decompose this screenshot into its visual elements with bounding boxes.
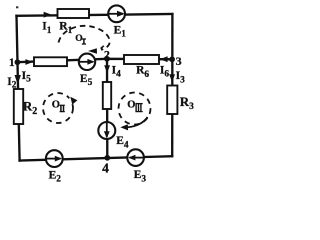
loop O_III dashed circle <box>119 93 151 125</box>
E2 arrow line <box>46 158 60 160</box>
resistor R5 (unlabeled, middle branch) <box>34 57 67 66</box>
E5 arrowhead <box>87 59 94 65</box>
svg-text:O: O <box>127 99 135 110</box>
resistor R4 (unlabeled, middle vertical) <box>103 82 111 109</box>
current arrow I6 <box>160 56 168 62</box>
scan noise dot <box>16 6 18 8</box>
source E3 <box>127 149 144 166</box>
E3 arrow line <box>130 157 144 159</box>
source E1 <box>108 5 125 22</box>
svg-text:3: 3 <box>176 54 182 68</box>
node 3 <box>169 56 175 62</box>
loop O_I arc end dash <box>101 46 104 49</box>
E1 arrow line <box>109 13 123 15</box>
E3 arrowhead <box>128 155 135 161</box>
loop O_I arrowhead <box>88 48 97 54</box>
wire middle horizontal node1-node3 <box>17 59 172 62</box>
E5 arrow line <box>79 61 93 63</box>
resistor R1 <box>58 9 90 18</box>
current arrow I3 <box>169 74 175 82</box>
wire top <box>17 14 173 16</box>
loop O_I dashed arc <box>59 26 110 50</box>
source E2 <box>46 150 63 167</box>
loop O_II arrowhead <box>69 95 78 104</box>
node 2 <box>104 56 110 62</box>
svg-text:2: 2 <box>104 47 110 61</box>
resistor R2 <box>14 89 23 124</box>
wire right <box>171 14 174 156</box>
wire left <box>17 16 20 161</box>
node 1 <box>15 59 21 65</box>
current arrow I5 <box>25 59 33 65</box>
source E4 <box>98 122 115 139</box>
resistor R3 <box>167 86 177 115</box>
svg-text:O: O <box>75 34 82 44</box>
resistor R6 <box>124 55 159 64</box>
E4 arrowhead <box>104 131 110 138</box>
E2 arrowhead <box>55 156 62 162</box>
svg-text:O: O <box>52 100 60 111</box>
E4 arrow line <box>106 122 108 137</box>
loop O_II dashed circle <box>43 93 73 123</box>
wire middle vertical node2-node4 <box>106 59 109 158</box>
source E5 <box>79 54 95 70</box>
current arrow I1 <box>44 12 52 18</box>
loop O_III solid bottom arc <box>125 117 148 127</box>
E1 arrowhead <box>117 11 125 17</box>
current arrow I4 <box>104 65 110 73</box>
svg-text:4: 4 <box>102 160 109 175</box>
svg-text:1: 1 <box>9 57 15 69</box>
node 4 <box>104 155 110 161</box>
loop O_III arrowhead <box>120 124 128 130</box>
wire bottom <box>20 156 173 160</box>
current arrow I2 <box>15 75 21 85</box>
